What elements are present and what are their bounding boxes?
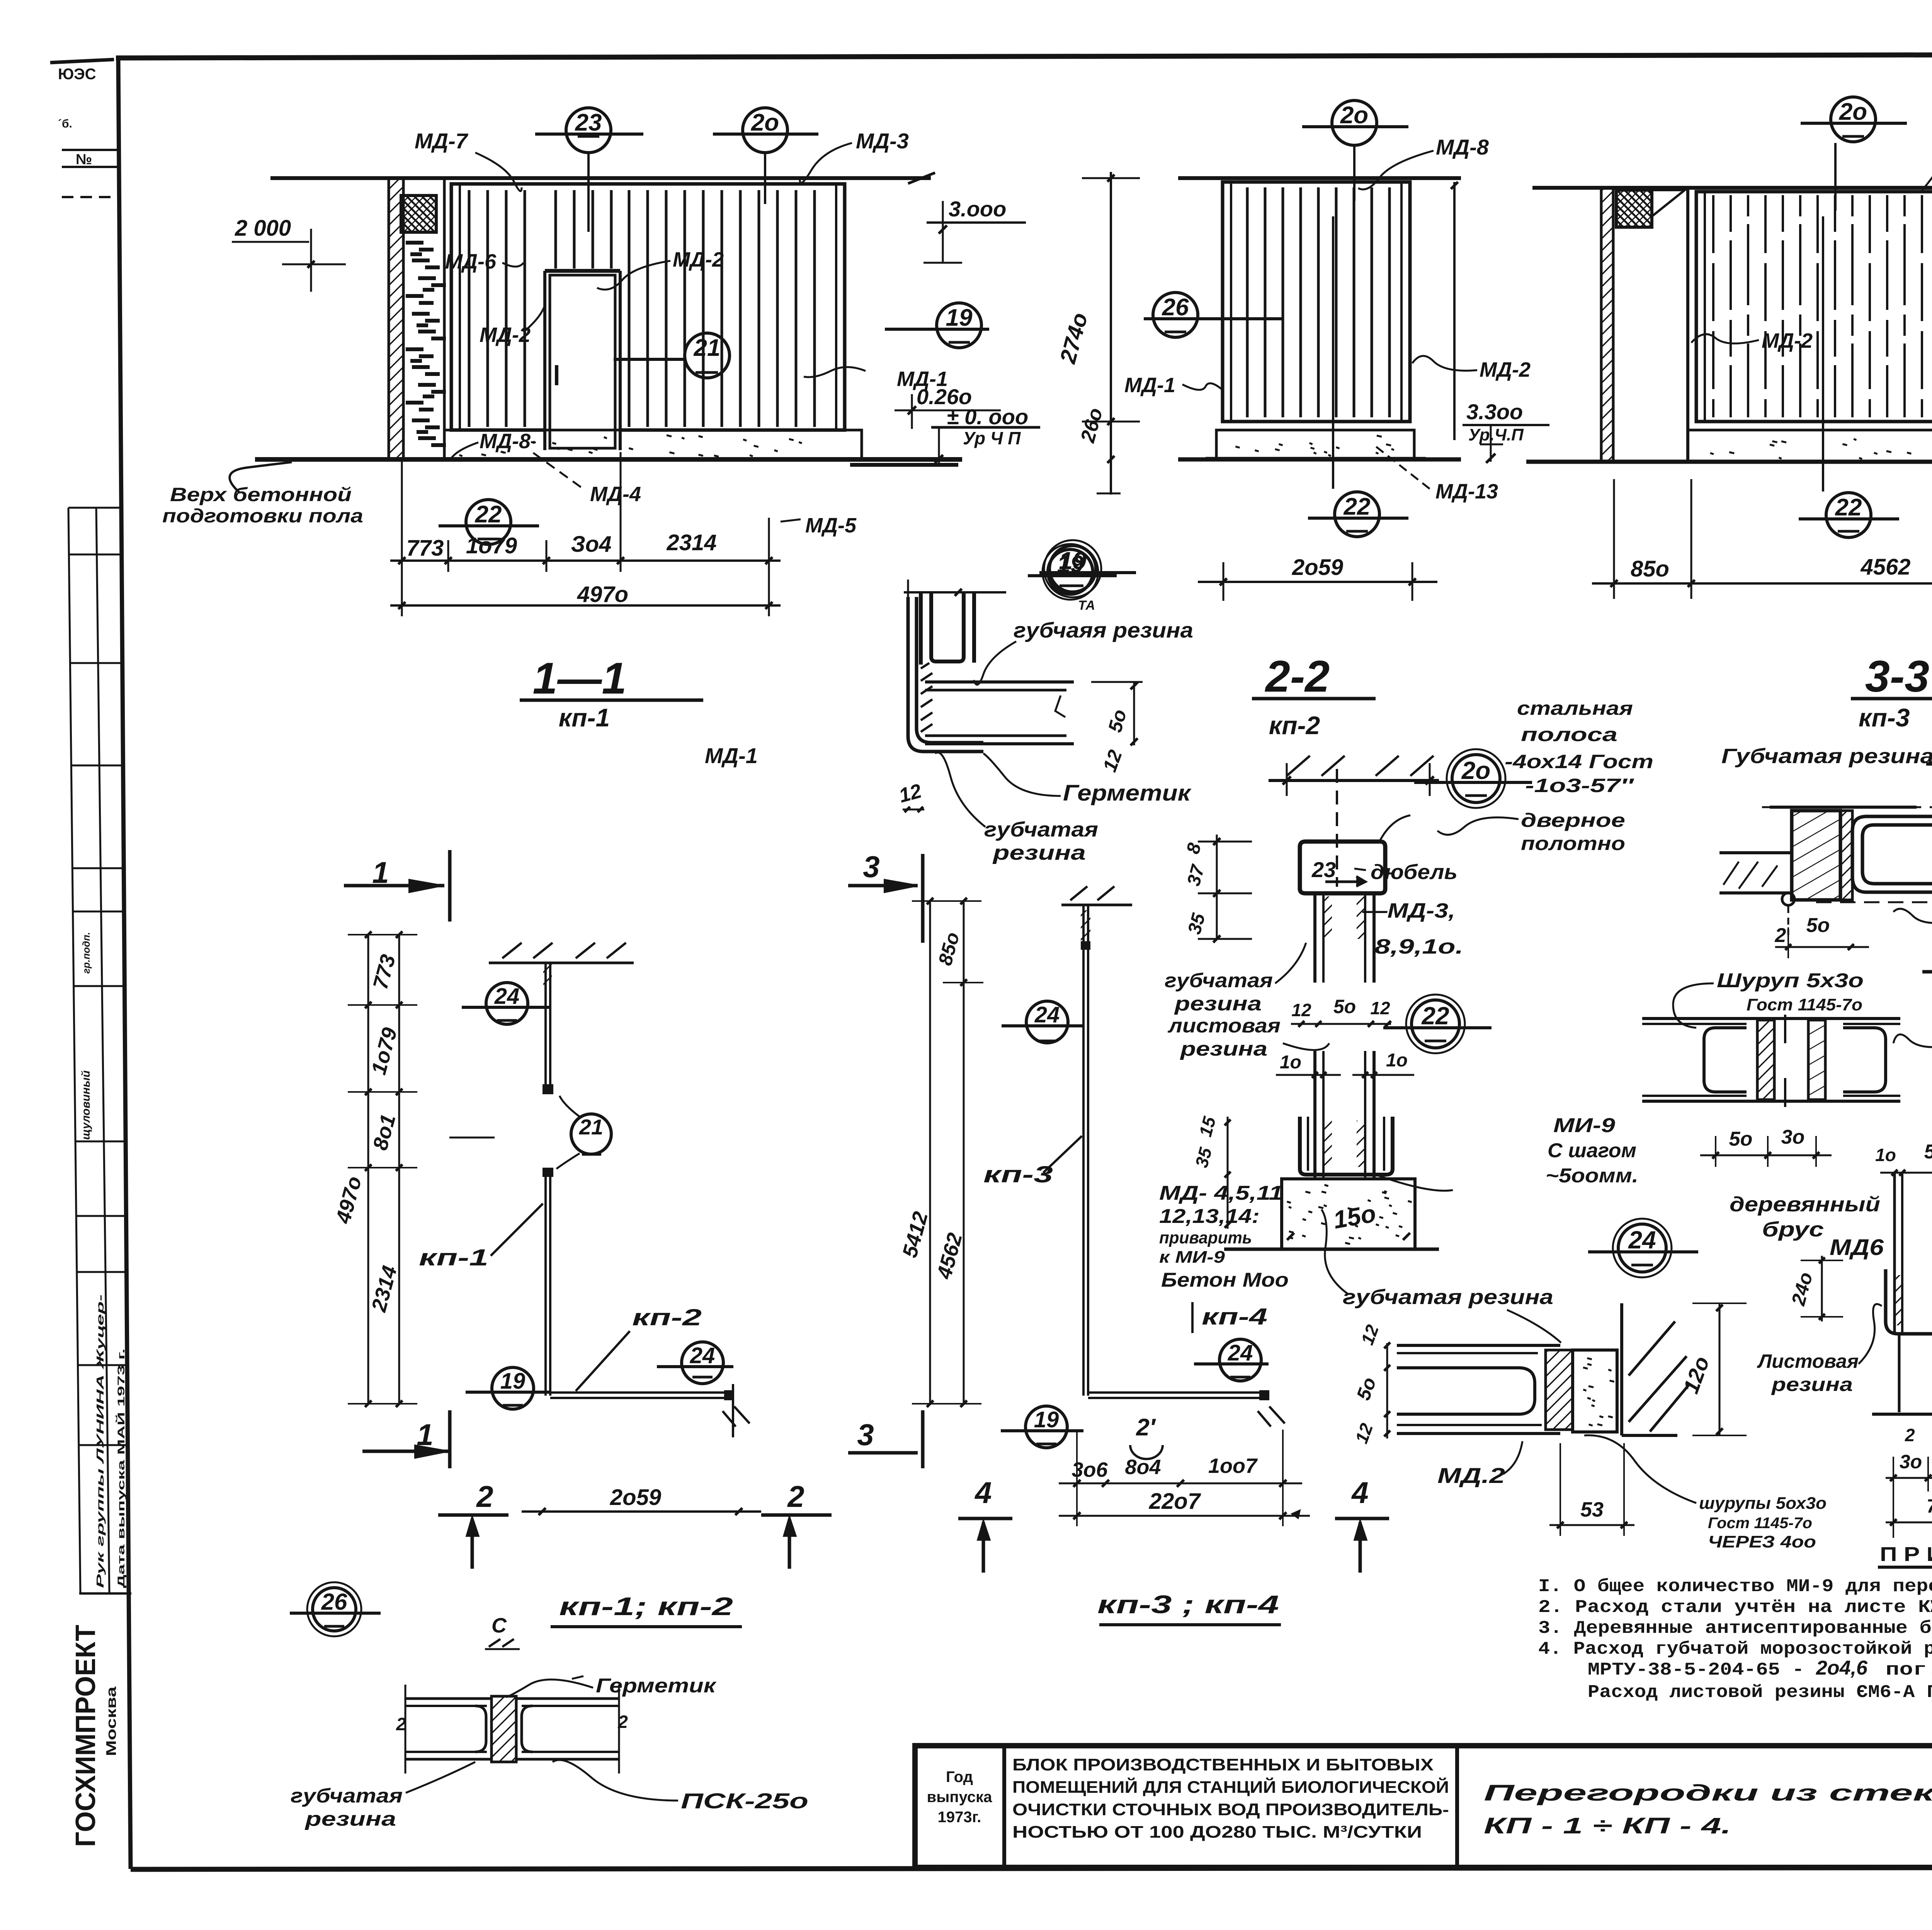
sheet frame left border [118, 58, 131, 1869]
svg-text:ТА: ТА [1078, 598, 1095, 613]
elevation KP-3 floor line [1526, 460, 1932, 464]
detail 19 top dim line [904, 591, 1006, 593]
floor line stub left of elev2 [850, 457, 952, 460]
elevation KP-3 panel frame [1696, 192, 1932, 422]
svg-text:Зо4: Зо4 [571, 532, 612, 557]
plan KP-1 dim chain verticals [367, 935, 369, 1404]
svg-text:Гост 1145-7о: Гост 1145-7о [1708, 1515, 1812, 1532]
svg-text:Шуруп 5х3о: Шуруп 5х3о [1717, 969, 1864, 992]
svg-text:Верх бетонной: Верх бетонной [170, 484, 352, 505]
svg-text:23: 23 [575, 109, 602, 136]
svg-text:2о: 2о [751, 109, 779, 136]
detail 19 L-angle profile [908, 597, 983, 752]
sheet frame top border [116, 54, 1932, 58]
svg-text:1оо7: 1оо7 [1208, 1454, 1258, 1478]
elevation KP-1 floor line [255, 457, 962, 462]
elevation KP-1 planks [469, 190, 525, 427]
detail 2-2 dim 12 50 12 [1291, 1023, 1391, 1025]
plan section mark 1 top [344, 884, 444, 888]
elevation KP-2 dimension 2059 [1198, 581, 1437, 583]
svg-text:24: 24 [1628, 1226, 1656, 1254]
svg-text:кп-2: кп-2 [632, 1304, 702, 1330]
title block outer [915, 1746, 1932, 1867]
svg-text:3. Деревянные антисептированн: 3. Деревянные антисептированные бруски и… [1538, 1618, 1932, 1638]
svg-text:26: 26 [321, 1589, 347, 1615]
elevation KP-1 wall column hatched [389, 178, 403, 460]
detail 3-3 head assembly [1770, 806, 1917, 809]
svg-text:Ур.Ч.П: Ур.Ч.П [1468, 425, 1524, 444]
svg-text:2 000: 2 000 [235, 216, 291, 241]
elevation KP-3 wall inner line [1686, 188, 1689, 462]
elevation KP-2 left dimension 2740 260 [1110, 172, 1112, 495]
svg-text:2о59: 2о59 [1292, 555, 1343, 580]
plan KP-2 wall horizontal [550, 1391, 733, 1394]
svg-text:Перегородки из стекора.: Перегородки из стекора. [1484, 1780, 1932, 1806]
svg-text:П Р И М Е Ч А Н И Я :: П Р И М Е Ч А Н И Я : [1880, 1543, 1932, 1566]
svg-text:24: 24 [494, 984, 520, 1009]
detail MD-6 vertical channel [1893, 1173, 1896, 1333]
detail circle 19 right of elev1 [937, 303, 981, 348]
svg-text:´б.: ´б. [58, 117, 72, 130]
detail circle 22 elev1 [466, 500, 511, 544]
detail circle 19 low [1048, 549, 1093, 594]
svg-text:7о: 7о [1927, 1495, 1932, 1517]
svg-text:кп-3: кп-3 [983, 1161, 1053, 1187]
detail 2-2 dims 8 37 35 left [1216, 835, 1218, 939]
elevation KP-1 dimension chain 773 1079 304 2314 [390, 559, 781, 562]
svg-text:3о: 3о [1781, 1126, 1805, 1148]
svg-text:МД-2: МД-2 [480, 323, 531, 347]
svg-text:МРТУ-38-5-204-65 -: МРТУ-38-5-204-65 - [1588, 1660, 1804, 1680]
detail circle 22 elev2 [1335, 492, 1379, 537]
detail 19 dim 50 12 right [1091, 681, 1143, 683]
detail 2-2 bottom collar channel [1300, 1117, 1393, 1175]
detail circle 20 elev1 [743, 108, 787, 153]
elevation KP-3 ceiling line [1532, 186, 1932, 190]
detail 3-3 screw circle [1782, 893, 1794, 905]
elevation KP-2 base strip [1216, 430, 1414, 458]
svg-text:2′: 2′ [1136, 1414, 1156, 1441]
svg-text:5о: 5о [1333, 996, 1356, 1017]
svg-text:19: 19 [1034, 1407, 1059, 1432]
svg-text:МИ-9: МИ-9 [1553, 1114, 1615, 1137]
svg-text:4562: 4562 [1860, 554, 1910, 580]
svg-text:2-2: 2-2 [1265, 652, 1330, 701]
plan dim 2059 [522, 1510, 761, 1513]
detail 19 circle [1049, 546, 1096, 592]
svg-text:26: 26 [1162, 294, 1189, 321]
svg-text:3-3: 3-3 [1865, 652, 1929, 701]
title block column lines [1002, 1746, 1006, 1867]
elevation KP-3 embedded pad dark [1616, 190, 1652, 227]
svg-text:МД- 4,5,11: МД- 4,5,11 [1159, 1182, 1283, 1204]
svg-text:19: 19 [500, 1369, 526, 1394]
scan noise top-left corner [50, 60, 114, 63]
plan circle 24 c [1026, 1001, 1068, 1043]
detail 2-2 bottom dims 15 35 left [1227, 1117, 1229, 1229]
svg-text:12: 12 [1370, 998, 1390, 1018]
svg-text:± 0. ооо: ± 0. ооо [947, 405, 1028, 429]
svg-text:резина: резина [1173, 993, 1262, 1015]
elevation KP-2 right dim line [1453, 182, 1456, 440]
svg-text:22: 22 [475, 501, 502, 528]
svg-text:4: 4 [1351, 1476, 1368, 1510]
svg-text:Ур Ч П: Ур Ч П [963, 428, 1021, 448]
svg-text:губчатая: губчатая [1165, 969, 1273, 992]
elevation KP-1 total dimension 4970 [390, 604, 781, 607]
detail KP-4 dim 120 right [1719, 1303, 1721, 1435]
svg-text:1: 1 [417, 1418, 433, 1452]
svg-text:КП - 1 ÷ КП - 4.: КП - 1 ÷ КП - 4. [1484, 1813, 1731, 1838]
svg-text:ПОМЕЩЕНИЙ ДЛЯ СТАНЦИЙ БИОЛОГИЧ: ПОМЕЩЕНИЙ ДЛЯ СТАНЦИЙ БИОЛОГИЧЕСКОЙ [1012, 1777, 1449, 1797]
plan KP-3 wall top hatch [1061, 904, 1132, 906]
svg-text:21: 21 [579, 1115, 603, 1139]
detail circle 23 elev1 [566, 108, 611, 153]
svg-text:21: 21 [694, 335, 721, 361]
svg-text:кп-4: кп-4 [1202, 1304, 1267, 1330]
detail 2-2 ground line [1224, 1248, 1439, 1251]
svg-text:2: 2 [617, 1712, 628, 1732]
svg-text:кп-1: кп-1 [419, 1245, 488, 1270]
svg-text:МД.2: МД.2 [1437, 1463, 1505, 1488]
detail MD-7 joint assembly [1642, 1017, 1900, 1020]
svg-text:МД-2: МД-2 [673, 248, 724, 271]
detail 2-2 channel MD-3 [1300, 842, 1385, 893]
svg-text:гр.подп.: гр.подп. [80, 932, 92, 974]
detail circle 26 [1153, 292, 1198, 337]
svg-text:3.ооо: 3.ооо [949, 197, 1006, 221]
svg-text:щуловиный: щуловиный [80, 1070, 92, 1140]
detail MD-6 dim 10 50 10 [1880, 1172, 1932, 1174]
svg-text:губчатая резина: губчатая резина [1343, 1286, 1553, 1309]
svg-text:3о: 3о [1900, 1451, 1922, 1473]
svg-text:МД-1: МД-1 [1124, 374, 1175, 397]
svg-text:1о: 1о [1875, 1145, 1896, 1165]
svg-text:шурупы 5ох3о: шурупы 5ох3о [1699, 1494, 1827, 1513]
detail circle 20 elev2 [1332, 100, 1377, 145]
svg-text:19: 19 [1059, 547, 1087, 575]
svg-text:Герметик: Герметик [1063, 781, 1192, 806]
plan KP-1 wall segment lower [544, 1168, 547, 1396]
svg-text:4. Расход губчатой морозостой: 4. Расход губчатой морозостойкой резины … [1538, 1639, 1932, 1659]
detail PSK-250 end ticks [405, 1685, 406, 1774]
svg-text:полотно: полотно [1521, 833, 1625, 854]
detail KP-4 dim 53 [1549, 1524, 1634, 1526]
plan KP-1 wall segment upper [544, 963, 547, 1092]
svg-text:дверное: дверное [1521, 809, 1625, 831]
detail KP-4 wall corner hatched [1620, 1303, 1623, 1435]
elevation KP-1 ceiling line [270, 176, 931, 180]
plan KP-3 wall vertical [1082, 905, 1085, 1396]
svg-text:2о: 2о [1340, 102, 1368, 129]
detail MD-6 dims 30 40 70 bottom [1886, 1477, 1932, 1479]
plan circle 21 [571, 1114, 611, 1154]
svg-text:19: 19 [946, 304, 973, 331]
detail MD-6 dim 240 [1821, 1256, 1823, 1321]
elevation KP-2 ceiling line [1178, 176, 1461, 180]
svg-text:к МИ-9: к МИ-9 [1159, 1248, 1225, 1267]
svg-text:2: 2 [396, 1714, 406, 1734]
svg-text:кп-2: кп-2 [1269, 711, 1320, 740]
svg-text:2о4,6: 2о4,6 [1816, 1657, 1868, 1679]
svg-text:22: 22 [1835, 494, 1862, 521]
svg-text:497о: 497о [577, 582, 628, 607]
svg-text:Москва: Москва [103, 1686, 119, 1756]
svg-text:полоса: полоса [1521, 724, 1617, 745]
svg-text:МД-6: МД-6 [445, 250, 497, 273]
svg-text:-4ох14 Гост: -4ох14 Гост [1505, 751, 1653, 772]
svg-text:МД-1: МД-1 [705, 743, 758, 768]
svg-text:24: 24 [1034, 1002, 1060, 1027]
svg-text:№: № [76, 151, 92, 168]
left stamp strip verticals [68, 508, 80, 1593]
svg-text:кп-3: кп-3 [1859, 703, 1910, 732]
svg-text:пог.метров.: пог.метров. [1886, 1660, 1932, 1680]
detail circle 20 elev3 [1831, 97, 1876, 142]
svg-text:5о: 5о [1924, 1141, 1932, 1163]
svg-text:1973г.: 1973г. [938, 1809, 981, 1826]
svg-text:2: 2 [1775, 924, 1786, 947]
svg-text:2314: 2314 [666, 530, 716, 555]
svg-text:подготовки пола: подготовки пола [162, 505, 363, 527]
svg-text:3: 3 [857, 1418, 874, 1452]
svg-text:-1о3-57″: -1о3-57″ [1525, 775, 1634, 796]
svg-text:1—1: 1—1 [533, 654, 627, 703]
plan KP-3 dim verticals [929, 901, 931, 1404]
svg-text:2: 2 [1905, 1425, 1915, 1445]
elevation KP-2 planks [1247, 187, 1389, 417]
plan KP-4 wall horizontal [1088, 1391, 1269, 1394]
svg-text:3.3оо: 3.3оо [1466, 400, 1523, 424]
plan KP-4 dims 306 804 1097 [1059, 1483, 1302, 1484]
svg-text:ОЧИСТКИ СТОЧНЫХ ВОД ПРОИЗВОДИТ: ОЧИСТКИ СТОЧНЫХ ВОД ПРОИЗВОДИТЕЛЬ- [1012, 1800, 1449, 1819]
plan circle 24 a [486, 983, 528, 1024]
svg-text:Бетон Моо: Бетон Моо [1161, 1269, 1289, 1291]
svg-text:2о: 2о [1461, 757, 1491, 784]
svg-text:5о: 5о [1806, 914, 1830, 937]
svg-text:I. О бщее количество МИ-9 для: I. О бщее количество МИ-9 для перегородо… [1538, 1576, 1932, 1597]
svg-text:МД-2: МД-2 [1762, 329, 1813, 352]
detail MD-6 base below [1898, 1334, 1901, 1412]
svg-text:кп-1; кп-2: кп-1; кп-2 [559, 1592, 733, 1621]
svg-text:1о79: 1о79 [466, 533, 517, 558]
elevation KP-1 door opening [545, 271, 620, 450]
detail 19 panel bars right [925, 680, 1074, 684]
svg-text:МД-8: МД-8 [1436, 135, 1489, 159]
plan circle 24 b [682, 1342, 723, 1384]
svg-text:стальная: стальная [1517, 697, 1633, 719]
svg-text:22о7: 22о7 [1149, 1489, 1201, 1514]
svg-text:МД-3: МД-3 [856, 129, 909, 153]
svg-text:С шагом: С шагом [1548, 1139, 1636, 1162]
detail 2-2 concrete block [1282, 1179, 1415, 1249]
detail 2-2 top concrete line with slashes [1269, 779, 1439, 782]
detail KP-4 dims 12 50 12 left [1386, 1343, 1388, 1439]
detail 2-2 jamb below channel [1313, 893, 1316, 983]
detail PSK-250 panels [405, 1697, 491, 1700]
detail KP-4 leader from rubber [1507, 1310, 1561, 1343]
svg-text:МД-8: МД-8 [480, 430, 531, 453]
svg-text:БЛОК ПРОИЗВОДСТВЕННЫХ И БЫТ: БЛОК ПРОИЗВОДСТВЕННЫХ И БЫТОВЫХ [1012, 1755, 1434, 1774]
svg-text:Листовая: Листовая [1757, 1350, 1859, 1372]
svg-text:2о59: 2о59 [610, 1485, 661, 1510]
stamp box bottom line [79, 1592, 131, 1595]
svg-text:23: 23 [1311, 857, 1336, 882]
plan circle 24 d [1219, 1339, 1261, 1381]
elevation KP-1 door leaf [550, 275, 615, 448]
svg-text:ПСК-25о: ПСК-25о [681, 1789, 808, 1813]
elevation KP-2 panel frame [1223, 182, 1410, 422]
elevation KP-3 base strip [1688, 430, 1932, 462]
svg-text:24: 24 [690, 1343, 715, 1368]
svg-text:85о: 85о [1631, 556, 1669, 582]
svg-text:МД-2: МД-2 [1480, 358, 1531, 381]
left stamp strip dividers [68, 507, 121, 509]
svg-text:выпуска: выпуска [927, 1789, 992, 1806]
elevation KP-3 planks dashed [1713, 195, 1932, 417]
svg-text:НОСТЬЮ ОТ 100 ДО280 ТЫС. М³/С: НОСТЬЮ ОТ 100 ДО280 ТЫС. М³/СУТКИ [1012, 1823, 1422, 1842]
svg-text:МД-13: МД-13 [1435, 480, 1498, 503]
svg-text:12,13,14:: 12,13,14: [1159, 1205, 1260, 1228]
detail KP-4 rubber and wood blocks [1546, 1350, 1573, 1430]
svg-text:листовая: листовая [1167, 1015, 1281, 1037]
svg-text:МД6: МД6 [1830, 1235, 1884, 1260]
svg-text:1о: 1о [1386, 1050, 1408, 1071]
svg-text:2: 2 [476, 1479, 493, 1513]
svg-text:22: 22 [1344, 493, 1371, 520]
svg-text:резина: резина [1771, 1374, 1853, 1395]
plan circle 26 low [313, 1588, 356, 1631]
detail circle 21 elev1 [685, 333, 730, 378]
svg-text:2. Расход стали учтён на лист: 2. Расход стали учтён на листе КЖ-2 [1538, 1597, 1932, 1617]
svg-text:С: С [492, 1614, 507, 1637]
svg-text:53: 53 [1580, 1498, 1604, 1521]
elevation KP-1 embedded pad dark [401, 196, 436, 232]
svg-text:773: 773 [406, 536, 444, 561]
svg-text:~5оомм.: ~5оомм. [1546, 1165, 1638, 1187]
svg-text:Рук группы ЛУНИНА Жуцер-: Рук группы ЛУНИНА Жуцер- [94, 1294, 106, 1588]
svg-text:кп-3 ; кп-4: кп-3 ; кп-4 [1097, 1590, 1279, 1619]
plan circle 19 [492, 1367, 534, 1409]
svg-text:ГОСХИМПРОЕКТ: ГОСХИМПРОЕКТ [70, 1625, 101, 1847]
svg-text:деревянный: деревянный [1730, 1193, 1880, 1216]
elevation KP-1 base strip [444, 430, 862, 459]
svg-text:МД-5: МД-5 [805, 514, 857, 537]
svg-text:22: 22 [1421, 1002, 1449, 1030]
detail KP-4 channel horizontal [1397, 1344, 1560, 1347]
svg-text:1: 1 [372, 855, 389, 889]
plan circle 19 b [1026, 1406, 1067, 1448]
svg-text:Гост 1145-7о: Гост 1145-7о [1747, 995, 1862, 1014]
sheet frame bottom border [131, 1867, 1932, 1869]
svg-text:12: 12 [1291, 1000, 1311, 1020]
detail MD-7 dims 50 30 [1700, 1155, 1832, 1156]
detail 2-2 bottom dims 10 10 [1276, 1074, 1341, 1076]
svg-text:губчаяя резина: губчаяя резина [1014, 618, 1193, 642]
section line through KP-2 panel [1332, 216, 1334, 489]
svg-text:брус: брус [1762, 1218, 1824, 1241]
svg-text:губчатая: губчатая [984, 818, 1098, 841]
svg-text:Год: Год [946, 1768, 973, 1785]
detail 2-2 bottom jamb [1313, 1051, 1316, 1179]
svg-text:4: 4 [974, 1476, 992, 1510]
svg-text:резина: резина [992, 841, 1086, 864]
svg-text:ЮЭС: ЮЭС [58, 66, 96, 83]
svg-text:2: 2 [787, 1479, 804, 1513]
svg-text:приварить: приварить [1159, 1228, 1252, 1247]
svg-text:24: 24 [1228, 1340, 1253, 1365]
left margin No box [62, 149, 118, 151]
elevation KP-1 masonry column [402, 232, 405, 459]
svg-text:дюбель: дюбель [1371, 860, 1458, 884]
detail circle 22 mid [1412, 1000, 1459, 1048]
detail 3-3 channel [1852, 816, 1932, 892]
elevation KP-2 floor line [1178, 457, 1461, 462]
plan KP-4 total dim 2207 [1059, 1515, 1310, 1517]
svg-text:1о: 1о [1280, 1052, 1301, 1073]
svg-text:5о: 5о [1729, 1128, 1753, 1150]
svg-text:Герметик: Герметик [596, 1675, 717, 1697]
svg-text:резина: резина [1179, 1038, 1267, 1060]
plan section mark 1 bottom [362, 1450, 450, 1453]
svg-text:Дата выпуска МАЙ 1973 г.: Дата выпуска МАЙ 1973 г. [115, 1348, 127, 1588]
svg-text:губчатая: губчатая [291, 1785, 403, 1807]
detail circle 24 mid [1618, 1224, 1666, 1272]
elevation KP-1 panel frame [451, 184, 845, 430]
svg-text:3: 3 [863, 850, 879, 884]
plan KP-1 wall top hatch [489, 962, 634, 964]
svg-text:Расход листовой резины ЄМ6-А Г: Расход листовой резины ЄМ6-А Гост 73-38-… [1588, 1682, 1932, 1702]
svg-text:8о4: 8о4 [1125, 1456, 1161, 1479]
svg-text:2о: 2о [1839, 99, 1867, 125]
svg-text:МД-4: МД-4 [590, 483, 641, 506]
svg-text:8,9,1о.: 8,9,1о. [1374, 935, 1463, 958]
elevation KP-3 wall strip hatched [1601, 188, 1613, 462]
svg-text:—МД-3,: —МД-3, [1362, 899, 1455, 922]
elevation KP-3 dims 850 4562 [1592, 582, 1932, 585]
detail 19 rubber hatch [921, 663, 932, 732]
svg-text:Губчатая резина: Губчатая резина [1721, 745, 1932, 768]
detail circle 22 elev3 [1826, 493, 1871, 537]
svg-text:резина: резина [304, 1808, 396, 1830]
detail 19 vertical channel [921, 592, 974, 665]
svg-text:МД-7: МД-7 [415, 129, 469, 153]
detail MD-6 collar [1886, 1269, 1932, 1334]
svg-text:ЧЕРЕЗ 4оо: ЧЕРЕЗ 4оо [1708, 1532, 1816, 1551]
svg-text:кп-1: кп-1 [559, 703, 610, 732]
elevation KP-1 planks above door [556, 190, 611, 269]
detail circle 20 double near 2-2 [1452, 755, 1500, 803]
detail 3-3 wood beam from left [1719, 851, 1792, 854]
